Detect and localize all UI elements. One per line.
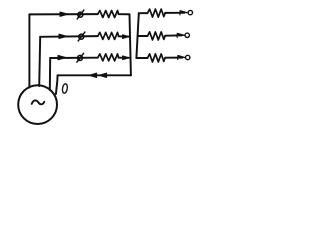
label 0 (neutral terminal) — [62, 83, 68, 93]
switch F3 (circle with blade) — [77, 53, 84, 62]
wire load branch 1 — [139, 12, 184, 14]
resistor R3 — [98, 54, 119, 61]
current arrow neutral 1 (leftward) — [89, 73, 97, 77]
current arrow load branch 2 — [177, 33, 185, 37]
switch F2 (circle with blade) — [78, 32, 85, 41]
wire load branch 2 — [138, 34, 182, 37]
terminal circle branch 1 — [188, 10, 192, 14]
wire phase C horizontal — [50, 57, 129, 59]
current arrow phase C at star point — [122, 56, 129, 60]
resistor R5 — [148, 32, 166, 40]
resistor R6 — [148, 54, 166, 62]
wire phase A riser — [28, 14, 30, 87]
current arrow phase A — [59, 12, 68, 16]
wire load bus (right group) — [136, 13, 138, 58]
current arrow neutral 2 (leftward) — [99, 73, 107, 77]
terminal circle branch 3 — [186, 55, 190, 59]
current arrow phase C — [57, 55, 66, 59]
switch F1 (circle with blade) — [77, 10, 84, 19]
wire neutral riser — [56, 75, 58, 94]
wire phase B riser — [39, 37, 40, 86]
generator G1 (AC source circle) — [18, 85, 57, 124]
current arrow phase B at star point — [122, 35, 129, 39]
AC sine symbol inside generator — [32, 100, 45, 104]
wire phase C riser — [49, 58, 51, 90]
wire neutral horizontal — [58, 74, 131, 76]
resistor R2 — [98, 32, 119, 39]
current arrow phase B — [58, 34, 67, 38]
current arrow load branch 3 — [177, 55, 185, 59]
terminal circle branch 2 — [185, 33, 189, 37]
current arrow load branch 1 — [180, 11, 188, 15]
wire load branch 3 — [136, 57, 182, 59]
wire star-point bus — [130, 14, 131, 75]
resistor R1 — [98, 11, 119, 18]
resistor R4 — [148, 9, 166, 17]
wire phase A horizontal — [29, 13, 129, 15]
wire phase B horizontal — [40, 35, 129, 38]
